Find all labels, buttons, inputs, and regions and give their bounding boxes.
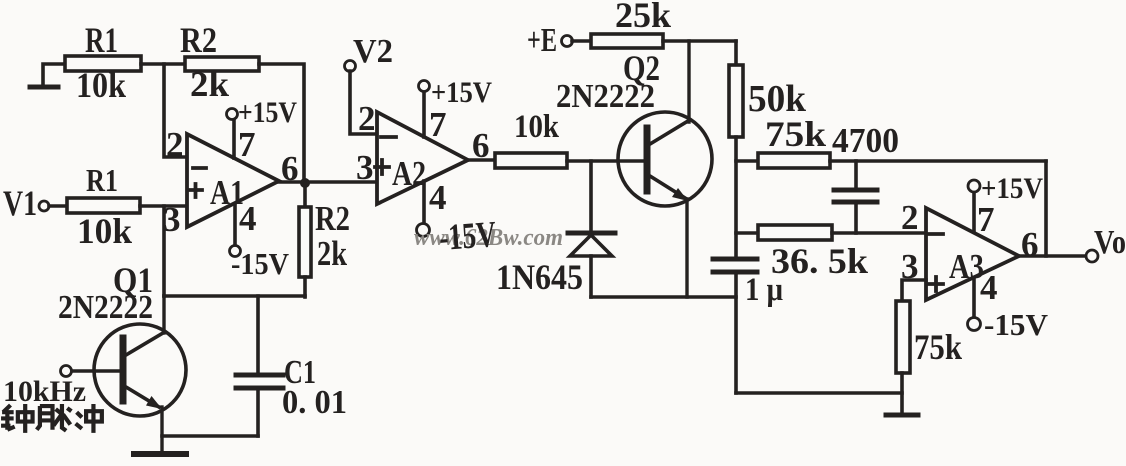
capacitor C1 bbox=[236, 296, 283, 436]
wire pin3 node down to Q1 collector bbox=[162, 206, 166, 296]
ground A3 bbox=[886, 413, 918, 418]
svg-text:75k: 75k bbox=[914, 327, 962, 367]
wire A1 output to A2 pin3 bbox=[279, 180, 377, 184]
+15V terminal A3 bbox=[968, 180, 980, 192]
pin 4 wire A2 bbox=[422, 181, 426, 224]
wire ground rail middle bbox=[591, 295, 736, 299]
svg-text:-15V: -15V bbox=[231, 246, 290, 281]
svg-text:2N2222: 2N2222 bbox=[556, 78, 655, 115]
svg-text:A2: A2 bbox=[392, 154, 426, 193]
svg-text:1N645: 1N645 bbox=[496, 257, 583, 297]
resistor 10k middle bbox=[495, 153, 567, 168]
svg-text:6: 6 bbox=[1021, 225, 1039, 264]
svg-text:10k: 10k bbox=[514, 109, 560, 145]
resistor 75k vertical bbox=[896, 301, 910, 414]
svg-text:-15V: -15V bbox=[984, 307, 1049, 342]
wire R2 to output node bbox=[259, 64, 304, 183]
svg-text:4700: 4700 bbox=[832, 121, 899, 160]
wire +E to 25k bbox=[572, 39, 591, 43]
resistor 75k horizontal bbox=[736, 153, 830, 168]
svg-text:4: 4 bbox=[429, 178, 447, 217]
svg-text:7: 7 bbox=[429, 105, 447, 144]
svg-text:3: 3 bbox=[163, 200, 181, 239]
+15V terminal A1 bbox=[227, 109, 238, 120]
-15V terminal A3 bbox=[968, 318, 981, 331]
svg-text:-15V: -15V bbox=[438, 214, 498, 259]
pin 4 wire A1 bbox=[233, 204, 237, 245]
svg-text:0. 01: 0. 01 bbox=[282, 384, 347, 421]
svg-text:2: 2 bbox=[901, 198, 919, 237]
svg-text:+E: +E bbox=[527, 22, 557, 59]
svg-text:25k: 25k bbox=[615, 0, 671, 35]
svg-text:36. 5k: 36. 5k bbox=[771, 241, 868, 281]
svg-text:R2: R2 bbox=[180, 20, 217, 60]
transistor Q2 bbox=[618, 41, 712, 297]
svg-text:R1: R1 bbox=[85, 20, 118, 60]
resistor R2 top bbox=[185, 57, 259, 71]
svg-text:A3: A3 bbox=[949, 247, 984, 286]
op-amp A3 bbox=[926, 208, 1019, 300]
svg-text:R2: R2 bbox=[315, 199, 350, 238]
capacitor 1u bbox=[713, 259, 757, 393]
node V1 terminal bbox=[39, 201, 49, 211]
svg-text:2: 2 bbox=[358, 99, 376, 138]
node dot A1 output bbox=[300, 178, 310, 188]
wire emitter rail to C1 bbox=[162, 434, 258, 438]
svg-text:3: 3 bbox=[356, 148, 374, 187]
svg-text:4: 4 bbox=[239, 199, 257, 238]
node Vo terminal bbox=[1086, 250, 1098, 262]
svg-text:75k: 75k bbox=[765, 114, 826, 154]
svg-text:2k: 2k bbox=[190, 64, 229, 104]
wire ground rail right bbox=[736, 391, 902, 395]
-15V terminal A2 bbox=[417, 224, 430, 237]
pin 7 wire A3 bbox=[972, 192, 976, 232]
op-amp A2 bbox=[375, 112, 468, 204]
wire 75k to feedback bbox=[830, 159, 1046, 163]
svg-text:V2: V2 bbox=[353, 33, 393, 70]
pin 7 wire A2 bbox=[422, 91, 426, 137]
svg-text:+15V: +15V bbox=[981, 172, 1043, 205]
svg-text:2: 2 bbox=[166, 125, 184, 164]
svg-text:2k: 2k bbox=[317, 234, 347, 273]
ground top-left bbox=[30, 64, 65, 87]
svg-text:V1: V1 bbox=[3, 183, 37, 223]
svg-text:+15V: +15V bbox=[431, 76, 492, 109]
resistor 25k bbox=[591, 34, 663, 48]
op-amp A1 bbox=[187, 134, 279, 227]
wire A3 pin3 to 75k bbox=[902, 280, 926, 301]
node +E terminal bbox=[562, 36, 573, 47]
pin 4 wire A3 bbox=[972, 279, 976, 318]
ground Q1 bbox=[134, 451, 186, 457]
wire 36.5k to A3 pin2 bbox=[832, 231, 926, 235]
transistor Q1 bbox=[72, 296, 186, 452]
svg-text:Vo: Vo bbox=[1094, 224, 1126, 261]
wire 10k to Q2 base bbox=[567, 159, 644, 163]
svg-text:4: 4 bbox=[980, 268, 998, 307]
wire feedback vertical bbox=[1044, 161, 1048, 256]
-15V terminal A1 bbox=[230, 246, 241, 257]
wire R1 to R2 bbox=[141, 62, 185, 66]
svg-text:R1: R1 bbox=[86, 162, 118, 198]
svg-text:+15V: +15V bbox=[238, 96, 297, 129]
label clock pulse chinese bbox=[1, 404, 102, 433]
svg-text:10kHz: 10kHz bbox=[3, 375, 86, 408]
svg-text:10k: 10k bbox=[77, 211, 132, 251]
wire A3 output bbox=[1019, 254, 1086, 258]
+15V terminal A2 bbox=[419, 81, 430, 92]
pin 7 wire A1 bbox=[232, 119, 236, 158]
resistor 50k bbox=[729, 41, 743, 258]
wire V2 to A2 pin2 bbox=[350, 71, 377, 134]
resistor R2 vertical 2k bbox=[299, 183, 311, 297]
wire V1 to R1 bbox=[49, 204, 67, 208]
svg-text:7: 7 bbox=[238, 125, 256, 164]
capacitor 4700 bbox=[834, 161, 877, 233]
wire node rail bbox=[164, 294, 305, 298]
wire A2 out to 10k bbox=[468, 158, 495, 162]
resistor 36.5k bbox=[736, 225, 832, 240]
wire junction to A1 pin2 bbox=[164, 64, 187, 157]
svg-text:10k: 10k bbox=[76, 65, 126, 105]
node V2 terminal bbox=[345, 61, 356, 72]
Q1 base terminal bbox=[61, 366, 72, 377]
wire 25k to 50k rail bbox=[663, 39, 736, 43]
resistor R1 bottom bbox=[67, 198, 140, 213]
svg-text:2N2222: 2N2222 bbox=[58, 289, 153, 326]
svg-text:7: 7 bbox=[977, 200, 995, 239]
wire R1 to A1 pin3 bbox=[140, 204, 187, 208]
diode 1N645 bbox=[568, 161, 615, 297]
resistor R1 top bbox=[65, 56, 141, 71]
